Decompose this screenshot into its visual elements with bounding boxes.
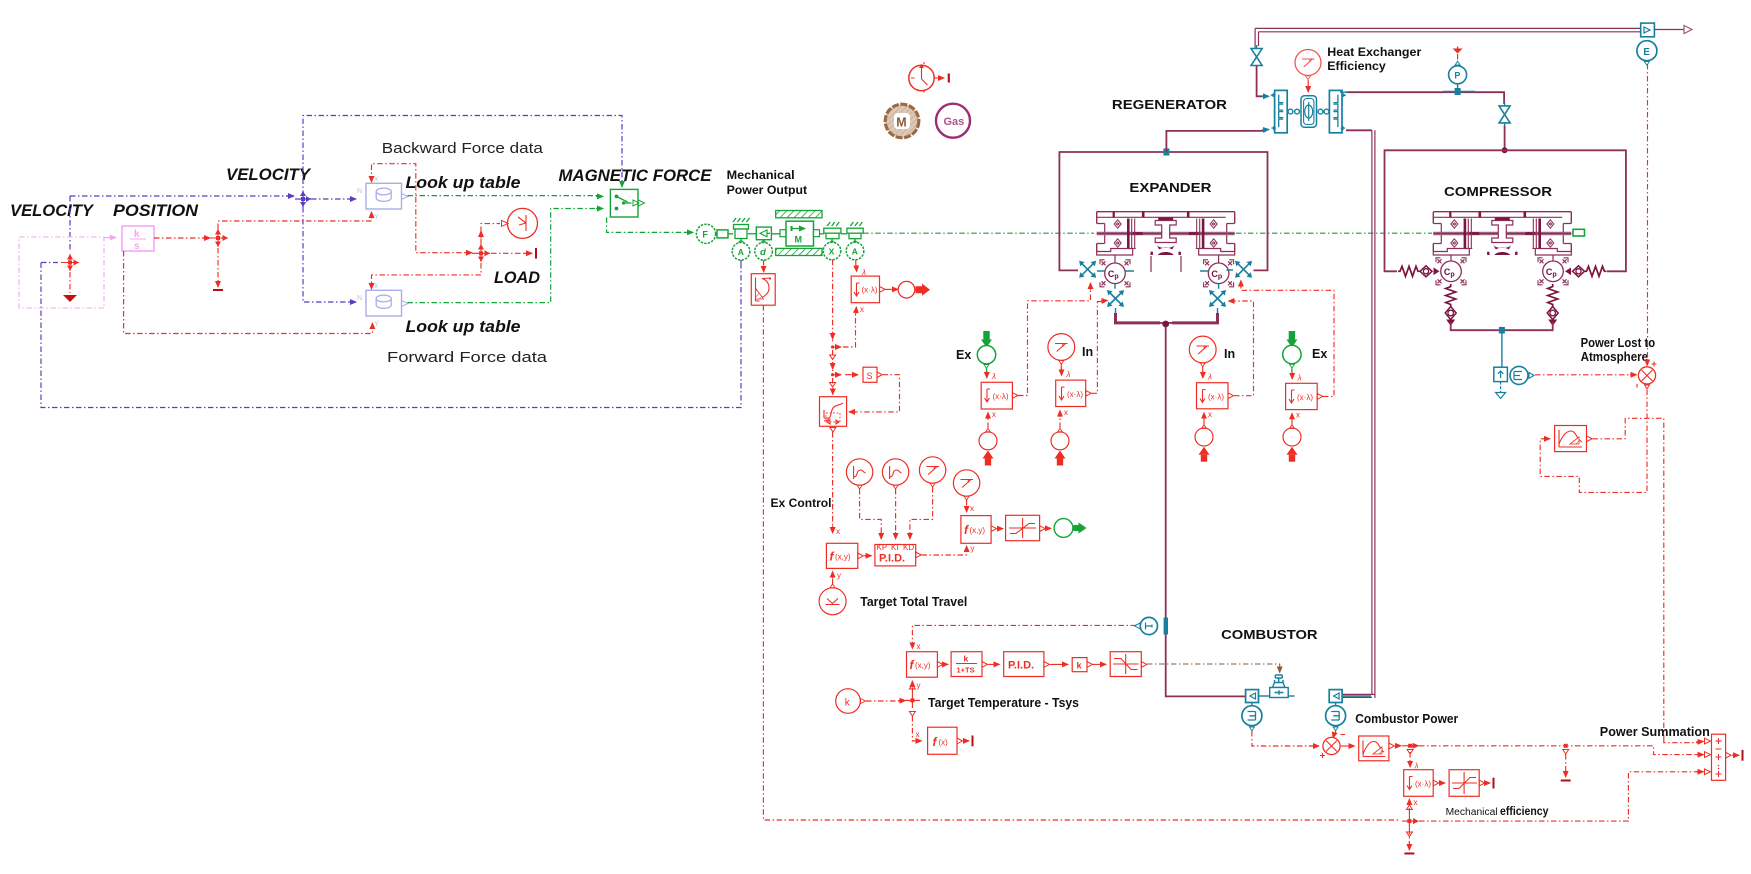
transducer block (signal shaping)	[751, 274, 775, 306]
svg-text:y: y	[837, 571, 841, 580]
wire multiplier to heat curve block	[1341, 745, 1355, 747]
svg-text:N: N	[357, 295, 362, 302]
svg-text:(x·λ): (x·λ)	[862, 286, 878, 295]
wire red X sensor chain down	[832, 260, 834, 343]
svg-text:COMBUSTOR: COMBUSTOR	[1221, 628, 1318, 642]
regenerator heat exchanger left	[1271, 90, 1287, 132]
svg-text:Power Lost to: Power Lost to	[1581, 336, 1656, 350]
wire to green output circle	[1046, 527, 1051, 529]
terminator right of LOAD cross	[491, 252, 528, 254]
lookup table block (backward)	[357, 177, 408, 222]
svg-text:(x·λ): (x·λ)	[993, 392, 1009, 401]
rod element	[716, 230, 728, 238]
top exhaust double line	[1255, 28, 1641, 31]
wire purple feedback bottom loop	[41, 263, 741, 408]
svg-text:EXPANDER: EXPANDER	[1129, 181, 1211, 195]
green end cap	[1573, 229, 1585, 236]
svg-text:P: P	[1454, 71, 1460, 81]
green output circle (Ex command)	[1054, 519, 1073, 538]
node tee to power block x input	[830, 305, 864, 360]
svg-text:Look up table: Look up table	[406, 173, 521, 192]
Ex source circle 4 (green)	[1283, 331, 1301, 373]
svg-text:Ex: Ex	[1312, 347, 1327, 361]
heat source circle 2	[1326, 703, 1346, 731]
wire cross right to summation bottom input	[1419, 772, 1698, 821]
svg-text:A: A	[738, 247, 744, 257]
svg-text:x: x	[916, 730, 920, 739]
svg-text:(x,y): (x,y)	[970, 526, 986, 535]
pressure circle below Ex4	[1283, 411, 1301, 462]
compressor bottom manifold	[1451, 322, 1553, 330]
displacement sensor circle d	[755, 240, 773, 260]
gas injector	[1270, 675, 1289, 698]
svg-text:X: X	[829, 247, 835, 257]
terminator below position cross	[217, 248, 219, 284]
spring left	[1398, 266, 1440, 277]
wire red S block loop to hysteresis block	[851, 375, 900, 412]
compressor inlet bowtie valve	[1499, 102, 1510, 126]
wire In2 output to expander lower-left valve	[1092, 302, 1105, 394]
combustor right wall double line	[1372, 130, 1375, 698]
wire junction down to mech eff block	[1409, 752, 1411, 764]
thick output arrow	[916, 284, 931, 296]
wire gain to saturation2	[1093, 663, 1106, 665]
wire purple top loop	[303, 116, 622, 197]
wire green forward LUT to magnetic force input 2	[408, 209, 599, 303]
svg-text:Mechanical: Mechanical	[727, 170, 795, 182]
heat transfer curve block (atmosphere)	[1555, 426, 1592, 452]
wire E sensor down to multiplier	[1647, 64, 1649, 361]
svg-text:λ: λ	[1297, 374, 1302, 383]
svg-text:Backward Force data: Backward Force data	[382, 140, 544, 157]
svg-text:In: In	[1224, 347, 1235, 361]
svg-text:P.I.D.: P.I.D.	[879, 553, 905, 565]
wire into power summation top input	[1664, 739, 1698, 743]
node expander top junction	[1163, 149, 1169, 156]
velocity sensor circle A (right)	[846, 239, 864, 260]
hysteresis block	[820, 397, 847, 427]
clock source	[909, 62, 949, 93]
svg-text:y: y	[971, 544, 975, 553]
svg-text:x: x	[992, 410, 996, 419]
wire Ex1 output to expander upper-left valve	[1018, 288, 1091, 396]
wire heat source 1 to multiplier	[1252, 731, 1314, 746]
svg-text:Y: Y	[374, 214, 379, 221]
first order lag block k/(1+TS)	[951, 652, 987, 677]
svg-text:VELOCITY: VELOCITY	[10, 201, 95, 220]
saturation block (ex valve cmd)	[1006, 515, 1046, 540]
svg-text:Gas: Gas	[944, 116, 965, 128]
ambient temperature flag above P	[1453, 47, 1463, 62]
wire red A right sensor to power block	[855, 260, 857, 266]
node manifold junction	[1162, 321, 1169, 328]
wire lag to PID2	[988, 663, 1000, 665]
svg-text:λ: λ	[991, 372, 996, 381]
wire purple A sensor feedback down	[740, 260, 742, 264]
wire green shaft expander to compressor	[1236, 232, 1432, 234]
target total travel circle	[819, 584, 846, 615]
stubs compressor Cp	[1451, 256, 1553, 262]
svg-text:S: S	[867, 371, 873, 381]
gain block k	[1072, 658, 1092, 672]
top exhaust outlet box	[1641, 23, 1655, 37]
power block Ex1	[981, 382, 1018, 409]
svg-text:X: X	[374, 284, 379, 291]
mass flow circle sensor	[1510, 366, 1534, 384]
wire valve down to HX left top port	[1257, 66, 1266, 96]
displacement sensor circle X	[823, 239, 841, 260]
node red cross junction (velocity)	[61, 254, 79, 271]
node tee near summation	[1561, 744, 1571, 781]
constant circle k (Tsys)	[836, 689, 866, 714]
saturation block 2	[1110, 652, 1147, 677]
pink dashed observer box	[19, 237, 104, 308]
svg-text:λ: λ	[1066, 370, 1071, 379]
pressure circle below In3	[1195, 410, 1213, 462]
power summation block	[1705, 734, 1732, 780]
svg-text:s: s	[134, 241, 140, 252]
compressor chamber Cp left	[1436, 258, 1466, 285]
wire PID2 to gain k	[1050, 663, 1068, 665]
power block Ex4	[1286, 383, 1323, 409]
wire red chain to S block tee	[832, 350, 834, 371]
svg-text:Ex: Ex	[956, 348, 971, 362]
svg-text:F: F	[702, 230, 708, 240]
wire sensor4 to f2 x input	[966, 500, 968, 508]
wire Ex4 output to expander upper-right valve	[1241, 284, 1334, 396]
node manifold teal junction	[1499, 327, 1505, 334]
wire into power block Ex4	[1291, 372, 1293, 379]
svg-text:KD: KD	[903, 543, 914, 552]
magnetic force switch block	[610, 189, 644, 217]
terminator after summation	[1732, 754, 1739, 756]
function block f(x,y) 2	[961, 516, 997, 553]
wire main power line to summation (middle input)	[1419, 746, 1698, 755]
combustor power curve block	[1359, 736, 1395, 761]
expander piston assembly	[1097, 212, 1235, 255]
svg-text:M: M	[896, 116, 906, 130]
svg-text:Forward Force data: Forward Force data	[387, 349, 548, 366]
expander valve upper-left	[1079, 261, 1096, 278]
wire k circle to cross	[866, 700, 900, 702]
regenerator heat exchanger right	[1329, 90, 1345, 132]
function block f(x)	[928, 727, 963, 754]
friction support 2 (hatched)	[820, 222, 841, 239]
sensor circle const 4	[953, 470, 979, 500]
node LOAD cross junction	[472, 244, 490, 262]
wire purple velocity to cross	[70, 195, 290, 197]
multiplier power lost	[1637, 362, 1657, 389]
svg-text:(x·λ): (x·λ)	[1415, 780, 1431, 789]
svg-text:(x): (x)	[939, 738, 949, 747]
wire red k/s bottom loop to forward LUT Y input	[124, 251, 373, 334]
heat input box 1	[1246, 690, 1259, 703]
wire red LOAD cross down to forward LUT X input	[372, 263, 482, 285]
svg-text:N: N	[357, 188, 362, 195]
wire expander to regenerator left	[1166, 131, 1266, 152]
svg-text:KI: KI	[891, 543, 899, 552]
expander loop box wire	[1059, 152, 1267, 270]
In source circle 3 (red)	[1189, 336, 1216, 367]
node velocity cross junction (purple)	[295, 191, 311, 207]
svg-text:Power Summation: Power Summation	[1600, 725, 1710, 739]
svg-text:X: X	[374, 177, 379, 184]
wire red hysteresis output down to f(x,y) x input	[832, 432, 834, 529]
wire cross down terminator	[1408, 829, 1410, 848]
spring check column right	[1547, 284, 1558, 326]
svg-text:Ex Control: Ex Control	[771, 498, 832, 510]
svg-text:A: A	[852, 247, 858, 257]
PID block 2	[1004, 652, 1050, 677]
svg-text:POSITION: POSITION	[113, 201, 199, 220]
wire curve to junction	[1395, 745, 1401, 747]
node red cross junction (position)	[210, 229, 228, 247]
node cross junction Tsys	[905, 685, 920, 717]
pressure circle below Ex1	[979, 410, 997, 466]
lookup table block (forward)	[357, 284, 408, 329]
compressor chamber Cp right	[1538, 258, 1568, 285]
output circle (mech power)	[898, 281, 915, 298]
wire manifold down to combustor left wall	[1166, 326, 1246, 696]
wire curve block output up to summation line	[1593, 418, 1664, 739]
power block In3	[1197, 383, 1234, 409]
saturation block 3	[1449, 770, 1485, 797]
svg-text:λ: λ	[1207, 373, 1212, 382]
power block In2	[1056, 380, 1092, 406]
wire red LOAD cross up to gain circle	[481, 224, 500, 244]
wire f1 to PID	[864, 555, 872, 557]
power block (x^lambda) mech power	[851, 276, 885, 303]
compressor loop box wire	[1385, 150, 1626, 271]
svg-text:Look up table: Look up table	[406, 317, 521, 336]
wire down to flow sensor	[1501, 333, 1503, 367]
wire saturation2 to injector (brown)	[1147, 664, 1280, 670]
terminator after f(x)	[963, 740, 969, 742]
svg-text:Efficiency: Efficiency	[1327, 61, 1386, 73]
enthalpy sensor E	[1637, 41, 1657, 66]
function block f(x,y) 1	[826, 543, 863, 580]
combustor bottom double line	[1329, 694, 1375, 697]
teal line box1 to injector	[1258, 695, 1270, 697]
heat source circle 1	[1242, 703, 1262, 731]
multiplier combustor power	[1320, 737, 1340, 758]
node compressor top junction	[1502, 147, 1508, 153]
velocity sensor circle A (left)	[732, 239, 750, 261]
svg-text:REGENERATOR: REGENERATOR	[1112, 98, 1227, 112]
svg-text:x: x	[1296, 411, 1300, 420]
pressure circle below In2	[1051, 408, 1069, 466]
wire In3 circle into power block	[1202, 367, 1204, 374]
svg-text:x: x	[1208, 410, 1212, 419]
svg-text:VELOCITY: VELOCITY	[226, 165, 312, 184]
wire temperature tap to f3 x input	[912, 625, 1136, 645]
Gas medium circle	[936, 104, 970, 138]
flow rate sensor box	[1494, 367, 1508, 381]
svg-text:Heat Exchanger: Heat Exchanger	[1327, 47, 1422, 59]
regenerator core valve	[1301, 96, 1317, 128]
wire exhaust to ambient arrow	[1654, 29, 1684, 31]
pressure sensor P	[1449, 61, 1467, 88]
sensor circle const 3	[919, 457, 945, 487]
svg-text:d: d	[760, 247, 766, 258]
wire HX right top to compressor valve	[1346, 92, 1504, 104]
svg-text:COMPRESSOR: COMPRESSOR	[1444, 185, 1552, 199]
teal overlay near P junction	[1443, 91, 1475, 93]
wire sensor1 to PID KP	[860, 489, 882, 536]
wire f3 to lag block	[944, 663, 949, 665]
svg-text:Power Output: Power Output	[727, 185, 808, 197]
svg-text:Y: Y	[374, 321, 379, 328]
friction support 3 (hatched)	[841, 222, 863, 239]
wire valve down to compressor box	[1504, 126, 1506, 148]
wire sensor2 to PID KI	[895, 489, 897, 536]
wire red d sensor to transducer	[763, 260, 765, 268]
wire purple cross to backward LUT	[311, 198, 352, 200]
Ex source circle 1 (green)	[977, 331, 995, 372]
svg-text:MAGNETIC FORCE: MAGNETIC FORCE	[559, 166, 713, 185]
wire In2 circle into power block	[1060, 364, 1062, 370]
wire In3 output to expander lower-right valve	[1233, 301, 1254, 396]
wire cross up to f3 y input	[911, 684, 913, 693]
sensor circle step 1	[846, 459, 872, 489]
teal line injector to double line	[1288, 695, 1295, 697]
wire sensor3 to PID KD	[910, 487, 933, 536]
gain circle k (load)	[502, 208, 538, 238]
wire green long shaft line to expander	[863, 232, 1094, 234]
svg-text:1+TS: 1+TS	[957, 666, 975, 675]
expander chamber Cp right	[1204, 260, 1234, 287]
ground (below velocity cross)	[69, 272, 71, 293]
ground (below flow sensor)	[1496, 382, 1506, 399]
expander chamber Cp left	[1100, 260, 1130, 287]
svg-text:KP: KP	[877, 543, 888, 552]
expander valve lower-left	[1107, 290, 1124, 307]
exhaust bowtie valve top-left	[1251, 45, 1262, 69]
svg-text:y: y	[917, 681, 921, 690]
expander bottom manifold	[1116, 313, 1161, 323]
S block (integrator)	[863, 367, 882, 382]
teal stubs valves	[1097, 270, 1233, 271]
mass block M with guide rails	[771, 211, 822, 256]
wire red k/s to position cross	[154, 237, 208, 239]
node tee to S block	[830, 373, 858, 387]
heat input box 2	[1329, 690, 1342, 703]
svg-text:(x·λ): (x·λ)	[1208, 393, 1224, 402]
wire HEE to regenerator	[1307, 80, 1309, 86]
svg-text:E: E	[1643, 47, 1650, 58]
temperature tap sensor on combustor left wall	[1135, 617, 1169, 634]
svg-text:k: k	[964, 654, 969, 664]
svg-text:LOAD: LOAD	[494, 268, 540, 287]
function block f(x,y) 3	[907, 652, 943, 690]
integrator block k/s	[122, 226, 154, 252]
svg-text:efficiency: efficiency	[1500, 804, 1549, 818]
wire flow sensor to power-lost multiplier	[1535, 374, 1632, 376]
compressor piston assembly	[1433, 212, 1571, 255]
svg-text:x: x	[1414, 798, 1418, 807]
wire red loop into backward LUT X input	[372, 164, 465, 253]
node cross junction bottom feedback	[1402, 805, 1419, 837]
friction support 1 (hatched)	[728, 218, 750, 239]
wire TTT circle to f1 y input	[832, 575, 834, 584]
wire red long bottom feedback line	[763, 305, 1400, 820]
svg-text:(x·λ): (x·λ)	[1297, 393, 1313, 402]
sensor circle step 2	[882, 459, 908, 489]
stubs Cp to piston	[1115, 255, 1219, 263]
svg-text:x: x	[1064, 408, 1068, 417]
expander bottom stub	[1151, 256, 1181, 272]
force source circle F	[696, 224, 715, 243]
wire green magnetic force output to F source	[607, 218, 688, 233]
svg-text:Combustor Power: Combustor Power	[1355, 712, 1458, 726]
wire mech eff block to saturation3	[1439, 782, 1445, 784]
wire PID output to f2 y input	[922, 549, 967, 555]
svg-text:(x,y): (x,y)	[915, 661, 931, 670]
wire purple green arrow into magnetic force block	[621, 182, 623, 187]
spring check column left	[1445, 284, 1456, 326]
teal line box2 to right wall	[1342, 695, 1371, 697]
expander valve lower-right	[1209, 290, 1226, 307]
svg-text:Target Temperature - Tsys: Target Temperature - Tsys	[928, 696, 1079, 710]
damper box element	[748, 227, 771, 240]
wire cross down to f(x) block	[912, 716, 917, 741]
power block mechanical efficiency	[1404, 770, 1439, 797]
wire cross up to mech eff x input	[1408, 801, 1410, 814]
heat exchanger efficiency source circle	[1295, 50, 1321, 80]
wire red into hysteresis block top	[832, 378, 834, 392]
wire red position cross up to backward LUT Y input	[218, 216, 372, 229]
svg-text:P.I.D.: P.I.D.	[1008, 660, 1034, 672]
wire green backward LUT to magnetic force input 1	[408, 195, 599, 197]
terminator after saturation3	[1485, 782, 1490, 784]
wire red power block to output circle	[885, 288, 893, 290]
svg-text:Atmosphere: Atmosphere	[1581, 350, 1649, 364]
svg-text:x: x	[836, 527, 840, 536]
svg-text:x: x	[917, 642, 921, 651]
svg-text:(x·λ): (x·λ)	[1067, 390, 1083, 399]
regenerator matrix links	[1288, 109, 1329, 114]
svg-text:M: M	[795, 235, 803, 245]
svg-text:Mechanical: Mechanical	[1446, 807, 1498, 818]
wire into power block Ex1	[986, 371, 988, 378]
thick green arrow	[1074, 522, 1087, 533]
In source circle 2 (red)	[1048, 334, 1075, 365]
wire f2 to saturation	[997, 528, 1003, 530]
svg-text:x: x	[860, 305, 864, 314]
wire pink into k/s block	[104, 237, 110, 239]
spring right	[1565, 266, 1607, 277]
svg-text:x: x	[970, 504, 974, 513]
svg-text:Target Total Travel: Target Total Travel	[860, 595, 967, 609]
wire multiplier down loop to heat curve block	[1540, 390, 1647, 493]
svg-text:In: In	[1082, 345, 1093, 359]
svg-text:(x,y): (x,y)	[835, 553, 851, 562]
expander valve upper-right	[1235, 261, 1252, 278]
PID block	[875, 543, 921, 566]
svg-text:k: k	[134, 229, 140, 240]
node junction combustor power	[1402, 744, 1419, 754]
wire heat source 2 to multiplier top	[1335, 731, 1337, 735]
M medium circle (mechanical domain icon)	[885, 104, 919, 138]
wire purple cross down to forward LUT	[303, 207, 352, 302]
